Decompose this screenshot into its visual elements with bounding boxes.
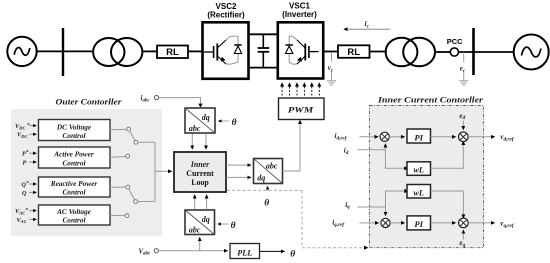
wire VDC* arrow [29, 125, 36, 127]
wire VSC1 to RL2 [323, 51, 338, 53]
wire VAC arrow [29, 218, 36, 220]
svg-text:PI: PI [414, 132, 423, 142]
converter VSC1 box [278, 22, 323, 78]
AC source G2 (right) [514, 35, 549, 70]
wire reactive power output to switch [110, 186, 126, 188]
svg-text:wL: wL [413, 188, 424, 197]
node iabc [141, 95, 159, 103]
transformer T1 [93, 38, 142, 66]
DC link top rail [249, 33, 279, 35]
block PI1 [407, 129, 431, 143]
wire AC1 to bus1 to transformer T1 [36, 50, 94, 52]
block Reactive Power Control [39, 177, 111, 197]
summer S1a [380, 132, 389, 141]
wire PCC to AC2 [459, 51, 515, 53]
node vc tap [328, 52, 334, 81]
wire theta into dq/abc bottom [218, 221, 236, 231]
wire PLL theta output [260, 249, 296, 259]
wire iq,ref to summer [360, 222, 379, 224]
wire id feed [358, 149, 386, 151]
svg-text:PLL: PLL [237, 248, 252, 257]
wire S1a to PI1 [389, 136, 404, 138]
wire ICL outputs to abc/dq [226, 165, 251, 177]
wire PI1 to S2a [431, 136, 456, 138]
wire id down to wL1 [385, 150, 404, 169]
wire RL2 to T2 [370, 51, 388, 53]
svg-text:abc: abc [189, 124, 201, 133]
switch S3 (closed) [126, 185, 155, 203]
transform block dq/abc (bottom) [185, 210, 215, 235]
converter VSC2 box [203, 22, 249, 79]
svg-text:θ: θ [231, 221, 236, 231]
svg-text:dq: dq [202, 215, 210, 224]
wire theta up into abc/dq bottom [264, 186, 269, 208]
wire wL2 to S2b top [431, 191, 464, 215]
wire S2a to vd,ref [468, 136, 494, 138]
wire abc/dq to PWM [283, 123, 301, 172]
AC source G1 (left) [7, 37, 36, 66]
wire Q* arrow [29, 183, 36, 185]
svg-text:RL: RL [347, 47, 360, 58]
block Inner Current Loop [174, 152, 226, 192]
block PI2 [407, 216, 431, 230]
svg-text:Current: Current [186, 169, 214, 178]
svg-text:P: P [23, 159, 27, 166]
wire iq up to wL2 [386, 191, 405, 207]
svg-text:PWM: PWM [288, 105, 315, 115]
bus bar 1 [62, 28, 64, 76]
switch S1 (closed) [127, 127, 155, 144]
svg-text:PCC: PCC [447, 37, 463, 46]
label VSC1 (Inverter) [282, 2, 317, 20]
svg-text:Control: Control [62, 131, 86, 140]
ground for ec [459, 81, 468, 85]
summer S2a [459, 132, 469, 142]
block DC Voltage Control [39, 120, 111, 141]
wire Vabc branch up to dq/abc bottom [199, 238, 201, 251]
wire id up to summer S1a [384, 144, 386, 150]
block wL2 [407, 185, 431, 199]
wire eq up into S2b [462, 230, 464, 239]
block Active Power Control [39, 147, 111, 168]
wire AC voltage output to switch [110, 214, 125, 216]
summer S2b [459, 218, 469, 228]
svg-text:θ: θ [264, 198, 269, 208]
IGBT Q2 inside VSC1 [297, 40, 319, 64]
wire RL1 to VSC2 [188, 50, 203, 52]
inner current controller panel [370, 106, 484, 248]
svg-text:Loop: Loop [191, 178, 209, 187]
wire iabc to dq transform [159, 98, 201, 105]
svg-text:abc: abc [189, 226, 201, 235]
svg-text:(Rectifier): (Rectifier) [207, 11, 245, 20]
svg-text:wL: wL [413, 166, 424, 175]
ground for vc [327, 81, 336, 85]
wire iq down to summer S1b [385, 207, 387, 216]
svg-text:RL: RL [166, 47, 179, 58]
wire T2 to PCC [435, 51, 451, 53]
svg-text:Control: Control [62, 188, 86, 197]
svg-text:dq: dq [257, 173, 265, 182]
DC link capacitor C1 [258, 34, 270, 67]
transform block dq/abc (top, abc to dq) [185, 108, 215, 133]
DC link bottom rail [249, 67, 279, 69]
svg-text:PI: PI [414, 219, 423, 229]
wire Vabc to PLL [159, 250, 228, 252]
transform block abc/dq (dq to abc) [254, 159, 283, 184]
svg-text:(Inverter): (Inverter) [282, 10, 317, 19]
wire active power output to switch [110, 156, 126, 159]
transformer T2 [386, 38, 435, 67]
node Vabc [139, 248, 159, 256]
wire ed down into S2a [462, 121, 464, 130]
wire theta dashed distribution [227, 190, 365, 247]
svg-text:Q: Q [22, 190, 27, 197]
wire theta into dq/abc top [219, 118, 237, 128]
freewheel diode D1 inside VSC2 [226, 36, 242, 64]
wire DC voltage control output to switch [110, 128, 126, 130]
wire VAC* arrow [29, 210, 36, 212]
wire P arrow [29, 161, 36, 163]
svg-text:Control: Control [62, 158, 86, 167]
block AC Voltage Control [39, 205, 111, 225]
svg-text:abc: abc [266, 161, 278, 170]
PWM gate pulse arrows to VSC1 [282, 86, 319, 96]
wire dq outputs to inner current loop [192, 134, 206, 149]
bus bar 2 [472, 28, 475, 75]
wire S2b to vq,ref [468, 222, 494, 224]
wire id,ref to summer [360, 136, 379, 138]
node ec tap [460, 52, 466, 81]
label VSC2 (Rectifier) [207, 2, 245, 20]
wire T1 to RL1 [142, 50, 157, 52]
outer controller panel [11, 109, 162, 236]
svg-text:Outer Contorller: Outer Contorller [56, 97, 123, 107]
wire Q arrow [29, 191, 36, 193]
wire VDC arrow [29, 133, 36, 135]
switch S4 (open) [125, 214, 129, 218]
node PCC [447, 37, 463, 56]
svg-text:θ: θ [232, 118, 237, 128]
summer S1b [381, 218, 390, 227]
freewheel diode D2 inside VSC1 [286, 36, 298, 64]
wire PI2 to S2b [431, 222, 456, 224]
wire bus to inner current loop [155, 170, 172, 172]
arrow theta into ICC box [364, 246, 369, 250]
wire dq bottom outputs up to ICL [195, 195, 207, 210]
IGBT Q1 inside VSC2 [204, 40, 226, 64]
resistor-inductor block RL2 [338, 45, 370, 58]
svg-text:dq: dq [202, 113, 210, 122]
svg-text:Control: Control [62, 216, 86, 225]
wire outer control bus vertical [154, 142, 156, 201]
svg-text:Inner Current Contorller: Inner Current Contorller [377, 94, 484, 104]
block PLL [230, 244, 260, 259]
switch S2 (open) [126, 154, 130, 158]
block wL1 [407, 162, 431, 176]
wire iq feed [358, 206, 386, 208]
wire wL1 to S2a bottom [431, 145, 464, 169]
block PWM [279, 98, 325, 120]
wire S1b to PI2 [390, 222, 404, 224]
svg-text:θ: θ [290, 249, 295, 259]
current arrow ic [344, 19, 390, 30]
svg-text:Inner: Inner [190, 160, 210, 169]
resistor-inductor block RL1 [157, 46, 188, 59]
wire P* arrow [29, 152, 36, 154]
